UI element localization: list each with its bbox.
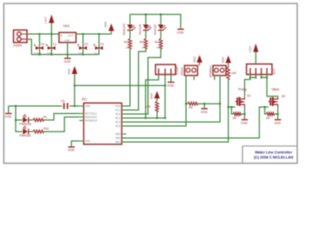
svg-text:RC3: RC3 (115, 117, 120, 120)
resistor R1 (33, 115, 48, 122)
junction float / R9 run (145, 117, 147, 119)
junction out rail C2 (98, 33, 100, 35)
connector X3 FLOAT (156, 65, 179, 75)
svg-text:1M: 1M (233, 116, 238, 120)
svg-text:Water Line Controller: Water Line Controller (255, 151, 293, 155)
svg-text:RB5: RB5 (116, 133, 121, 136)
junction led1 tap (15, 119, 17, 121)
wire gnd bus (32, 54, 100, 56)
wire LED top rail (130, 14, 181, 29)
connector X5 DISABLE (208, 66, 226, 78)
junction rail C4 (38, 33, 40, 35)
capacitor C3 (77, 34, 88, 55)
wire +12V to connector (255, 52, 257, 64)
supply symbol VDD (regulator output) (104, 22, 114, 34)
svg-text:GND: GND (64, 60, 72, 64)
wire output pin stubs (250, 75, 267, 78)
wire input rail (27, 33, 59, 35)
wire R10 to PIC RA6 (43, 117, 79, 132)
wire pump drain (245, 78, 251, 98)
pin RC4 (115, 121, 126, 124)
svg-text:REDLED: REDLED (122, 24, 126, 35)
svg-text:+12V: +12V (248, 46, 252, 53)
wire pair pump (250, 77, 256, 79)
wire R4 to PIC pin (122, 49, 161, 115)
svg-text:Valve: Valve (272, 88, 280, 92)
supply symbol VDD (pres) (192, 55, 202, 66)
pin VDD (79, 105, 90, 108)
ground GND (VSS) (68, 147, 76, 152)
wire R7 to source (274, 113, 278, 115)
svg-text:1M: 1M (266, 116, 271, 120)
resistor R10 (33, 126, 49, 133)
resistor R3 (140, 39, 148, 50)
supply symbol VDD (PIC) (67, 66, 79, 106)
wire pwr pin2 to gnd bus (27, 39, 32, 54)
regulator IC1 7805 (59, 24, 76, 42)
junction q2 pulldown tap (264, 106, 266, 108)
pin RB5 (116, 133, 127, 136)
svg-text:R1: R1 (44, 115, 48, 119)
wire q2 source down (277, 108, 279, 119)
svg-text:VDD: VDD (67, 69, 71, 75)
svg-text:GND: GND (64, 39, 70, 42)
pin RC2 (115, 113, 126, 116)
svg-text:VDD: VDD (85, 105, 90, 108)
supply symbol +12V (input) (44, 15, 55, 25)
wire led to R4 (160, 31, 162, 39)
supply symbol VDD (R9) (149, 91, 159, 101)
svg-text:VDD: VDD (192, 57, 196, 63)
wire R6 to source (241, 113, 245, 115)
wire R2 to PIC pin (122, 49, 130, 107)
svg-text:IN: IN (60, 35, 63, 38)
svg-text:RA5/MCLR: RA5/MCLR (85, 120, 97, 123)
ground GND (power bus) (64, 55, 72, 64)
resistor R6 (233, 112, 242, 120)
svg-text:GND: GND (274, 121, 282, 125)
junction R9 / run (156, 117, 158, 119)
junction led anode bus (15, 105, 17, 107)
IC U1 PIC (82, 98, 122, 145)
wire q1 source down (244, 108, 246, 119)
ground GND (led rail) (177, 29, 185, 34)
capacitor C5 (9, 99, 75, 109)
svg-text:C3: C3 (84, 42, 88, 46)
pin RA5/MCLR (79, 120, 97, 123)
wire +12V to rail (51, 23, 53, 34)
svg-text:10K: 10K (231, 71, 236, 75)
svg-text:C4: C4 (41, 42, 45, 46)
pin RC1 (115, 109, 126, 112)
resistor R2 (124, 39, 132, 50)
title text (254, 151, 294, 160)
svg-text:1K: 1K (141, 46, 145, 50)
svg-text:PWR1: PWR1 (14, 44, 23, 48)
junction q1 pulldown tap (230, 106, 232, 108)
wire led anode bus (16, 106, 23, 132)
ground GND (float) (167, 82, 175, 87)
svg-text:C1: C1 (53, 42, 57, 46)
wire led d5 to R10 (29, 131, 33, 133)
svg-text:RC2: RC2 (115, 113, 120, 116)
wire R1 to PIC RA7 (43, 114, 79, 121)
wire input run (R9/float) (122, 117, 165, 119)
wire q2 pulldown tap (265, 107, 267, 114)
supply symbol +12V (output) (248, 44, 258, 54)
junction rail led2 (145, 13, 147, 15)
wire VSS to gnd (71, 141, 79, 147)
wire pair valve (261, 77, 267, 79)
LED D4 VLVLED (153, 14, 166, 35)
svg-text:1K: 1K (156, 46, 160, 50)
svg-text:GND: GND (68, 148, 76, 152)
svg-text:10uF: 10uF (94, 51, 101, 55)
junction rail C1/+12V (50, 33, 52, 35)
wire output rail (76, 33, 111, 35)
svg-text:GND: GND (167, 83, 175, 87)
capacitor C1 (46, 34, 57, 55)
pin RB6 (116, 137, 127, 140)
svg-text:DISABLE: DISABLE (208, 66, 212, 78)
LED D5 PMPLED (20, 126, 32, 138)
supply symbol VDD (R8) (221, 56, 231, 68)
svg-text:GND: GND (5, 115, 13, 119)
svg-text:GND: GND (241, 121, 249, 125)
pin RC0 (115, 105, 126, 108)
title block (243, 146, 298, 163)
wire regulator gnd pin (67, 43, 69, 55)
ground GND (pic left) (5, 114, 13, 119)
pin RC3 (115, 117, 126, 120)
pin RC5 (115, 125, 126, 128)
svg-text:100n: 100n (78, 51, 85, 55)
svg-text:7805: 7805 (63, 24, 70, 28)
svg-text:VDD: VDD (149, 93, 153, 99)
svg-text:R5: R5 (189, 106, 193, 110)
wire R8 down to Q1 run (122, 79, 229, 142)
junction out pin1 (249, 76, 251, 78)
junction bus C3 (82, 53, 84, 55)
svg-text:VSS: VSS (85, 140, 90, 143)
junction out pin2 (255, 76, 257, 78)
junction bus C1 (50, 53, 52, 55)
svg-text:GND: GND (201, 110, 209, 114)
svg-text:C2: C2 (100, 42, 104, 46)
pin RB7 (116, 141, 127, 144)
wire float pin1 to PIC (122, 75, 159, 119)
svg-text:R10: R10 (44, 126, 50, 130)
svg-text:RB7: RB7 (116, 141, 121, 144)
wire gnd tap (203, 104, 205, 109)
svg-text:FLOAT: FLOAT (175, 65, 179, 74)
ground GND (Q2) (274, 120, 282, 125)
frame border (4, 4, 297, 164)
junction out rail C3 (82, 33, 84, 35)
wire pres pin2 stub (193, 76, 195, 81)
capacitor C4 (34, 34, 45, 55)
svg-text:C5: C5 (61, 99, 65, 103)
svg-text:PIC: PIC (82, 98, 88, 102)
wire pres pin1 down to PIC run (122, 76, 186, 127)
svg-text:R4: R4 (155, 40, 159, 44)
junction bus C4 (38, 53, 40, 55)
svg-text:+12V: +12V (44, 17, 48, 24)
svg-text:(C) 2008 C MCLELLAN: (C) 2008 C MCLELLAN (254, 155, 294, 159)
pin RA7/OSC1 (79, 113, 97, 116)
wire disable pin2 down to PIC run (122, 76, 220, 123)
svg-text:RB6: RB6 (116, 137, 121, 140)
pin VSS (79, 140, 90, 143)
wire VDD to float switch common (75, 85, 166, 87)
svg-text:R2: R2 (124, 40, 128, 44)
resistor R5 (186, 102, 198, 110)
junction pres / R5 line (185, 103, 187, 105)
svg-text:VDD: VDD (221, 57, 225, 63)
wire led to R3 (145, 31, 147, 39)
junction VDD / cap line (74, 105, 76, 107)
ground GND (R5 tap) (201, 109, 209, 114)
transistor Q1 (235, 94, 251, 109)
LED D1 PWRLED (20, 114, 32, 126)
svg-text:Q1: Q1 (247, 94, 251, 98)
wire float pin3 to gnd (170, 75, 172, 82)
junction q2 source/R7 (277, 113, 279, 115)
svg-text:OUT: OUT (272, 68, 276, 74)
LED D2 REDLED (122, 14, 135, 35)
svg-text:RC4: RC4 (115, 121, 120, 124)
svg-text:Pump: Pump (239, 88, 248, 92)
resistor R7 (266, 112, 275, 120)
wire valve drain (267, 78, 278, 98)
svg-text:VDD: VDD (104, 22, 108, 28)
wire R3 to PIC pin (122, 49, 146, 111)
connector X4 PRES (180, 66, 198, 76)
svg-text:RC0: RC0 (115, 105, 120, 108)
wire R5 to disable line (198, 103, 221, 105)
svg-text:YELLED: YELLED (138, 24, 142, 35)
svg-text:RC1: RC1 (115, 109, 120, 112)
wire led d1 to R1 (29, 119, 33, 121)
resistor R8 (227, 67, 237, 79)
connector X2 output (247, 64, 276, 75)
wire gnd stub (8, 106, 10, 113)
svg-text:GND: GND (177, 30, 185, 34)
capacitor C2 (93, 34, 104, 55)
svg-text:RC5: RC5 (115, 125, 120, 128)
junction gnd tap (203, 103, 205, 105)
pin RA6/OSC2 (79, 116, 97, 119)
LED D3 YELLED (138, 14, 151, 35)
wire disable pin1 stub (214, 76, 216, 81)
junction q1 gate (227, 106, 229, 108)
resistor R9 (146, 101, 159, 112)
junction out pin4 (266, 76, 268, 78)
junction disable / R5 (219, 103, 221, 105)
svg-text:R3: R3 (140, 40, 144, 44)
resistor R4 (155, 39, 163, 50)
svg-text:VLVLED: VLVLED (153, 24, 157, 35)
svg-text:Q2: Q2 (282, 94, 286, 98)
junction rail led3 (160, 13, 162, 15)
junction out pin3 (260, 76, 262, 78)
wire q1 gate lead (228, 106, 235, 108)
svg-text:1K: 1K (126, 46, 130, 50)
svg-text:OUT: OUT (68, 35, 74, 38)
junction VDD bus / float common (74, 84, 76, 86)
junction q1 source/R6 (244, 113, 246, 115)
wire q1 pulldown tap (232, 107, 234, 114)
wire R9 to run (156, 112, 158, 119)
wire led to R2 (129, 31, 131, 39)
junction bus reg gnd (66, 53, 68, 55)
svg-text:PRES: PRES (180, 68, 184, 76)
transistor Q2 (269, 94, 286, 108)
connector PWR1 (14, 30, 28, 48)
svg-text:10K: 10K (146, 105, 151, 109)
wire q2 gate feed (122, 107, 269, 138)
svg-text:PWRLED: PWRLED (20, 122, 32, 126)
svg-text:PMPLED: PMPLED (20, 134, 32, 138)
ground GND (Q1) (241, 120, 249, 125)
